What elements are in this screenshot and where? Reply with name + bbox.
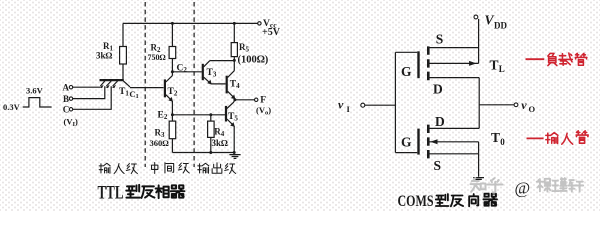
svg-text:T: T xyxy=(490,58,499,73)
svg-text:3.6V: 3.6V xyxy=(26,86,44,96)
svg-text:(Vo): (Vo) xyxy=(256,105,271,117)
svg-text:T: T xyxy=(491,130,500,145)
svg-text:360Ω: 360Ω xyxy=(150,138,170,148)
svg-text:v: v xyxy=(338,97,344,111)
svg-text:T1: T1 xyxy=(119,87,129,98)
svg-text:F: F xyxy=(260,95,266,105)
svg-text:v: v xyxy=(521,98,527,112)
svg-text:C2: C2 xyxy=(177,64,188,75)
svg-text:0.3V: 0.3V xyxy=(3,102,21,112)
svg-text:R5: R5 xyxy=(239,42,250,54)
svg-text:(100Ω): (100Ω) xyxy=(238,55,269,66)
svg-text:T2: T2 xyxy=(168,87,178,98)
svg-text:A: A xyxy=(63,83,70,93)
svg-text:750Ω: 750Ω xyxy=(148,53,166,62)
svg-text:S: S xyxy=(436,32,444,47)
svg-text:S: S xyxy=(434,158,442,173)
svg-text:T5: T5 xyxy=(228,112,238,123)
svg-text:(VI): (VI) xyxy=(64,116,79,128)
svg-text:3kΩ: 3kΩ xyxy=(96,51,113,61)
svg-text:G: G xyxy=(401,134,412,149)
svg-text:V: V xyxy=(485,13,495,28)
svg-text:TTL: TTL xyxy=(98,184,124,204)
svg-text:C: C xyxy=(63,105,70,115)
svg-text:T4: T4 xyxy=(230,79,240,90)
svg-text:R4: R4 xyxy=(214,127,225,139)
svg-text:B: B xyxy=(63,94,69,104)
svg-text:3kΩ: 3kΩ xyxy=(212,138,229,148)
svg-text:D: D xyxy=(435,114,445,129)
svg-text:D: D xyxy=(433,81,443,96)
svg-text:C1: C1 xyxy=(129,89,138,100)
svg-text:+5V: +5V xyxy=(262,27,281,38)
svg-text:L: L xyxy=(499,64,505,74)
svg-text:0: 0 xyxy=(500,137,505,147)
svg-text:T3: T3 xyxy=(207,68,217,79)
svg-text:@: @ xyxy=(515,179,531,198)
svg-text:I: I xyxy=(347,104,351,114)
svg-text:DD: DD xyxy=(494,21,507,31)
svg-text:G: G xyxy=(401,64,412,79)
svg-text:O: O xyxy=(529,104,536,114)
svg-text:COMS: COMS xyxy=(398,193,434,210)
svg-text:E2: E2 xyxy=(158,110,168,121)
